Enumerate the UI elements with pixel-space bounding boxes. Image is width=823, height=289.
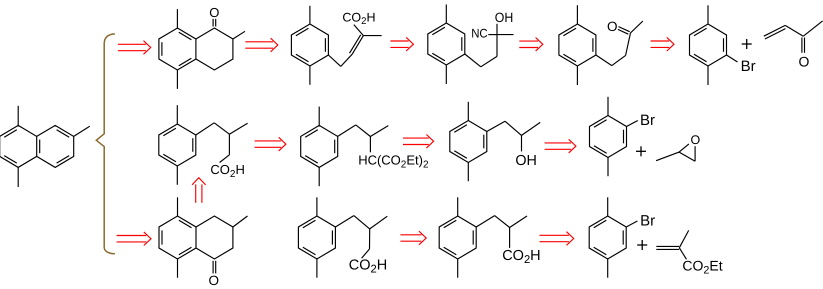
svg-text:CO2​H: CO2​H	[502, 248, 540, 266]
svg-text:O: O	[607, 19, 618, 34]
svg-text:OH: OH	[495, 10, 514, 25]
svg-text:Br: Br	[741, 58, 756, 75]
svg-text:O: O	[691, 133, 701, 147]
svg-text:NC: NC	[471, 27, 488, 41]
svg-text:CO2​H: CO2​H	[349, 257, 387, 275]
svg-text:O: O	[798, 53, 809, 69]
svg-text:CO2​H: CO2​H	[210, 162, 244, 180]
svg-text:Br: Br	[640, 112, 655, 129]
svg-text:CO2​Et: CO2​Et	[682, 258, 722, 277]
svg-text:Br: Br	[640, 212, 655, 229]
svg-text:OH: OH	[515, 153, 537, 169]
svg-text:O: O	[208, 273, 219, 288]
svg-text:HC(CO2​Et)2​: HC(CO2​Et)2​	[358, 153, 429, 171]
svg-text:O: O	[209, 5, 219, 20]
